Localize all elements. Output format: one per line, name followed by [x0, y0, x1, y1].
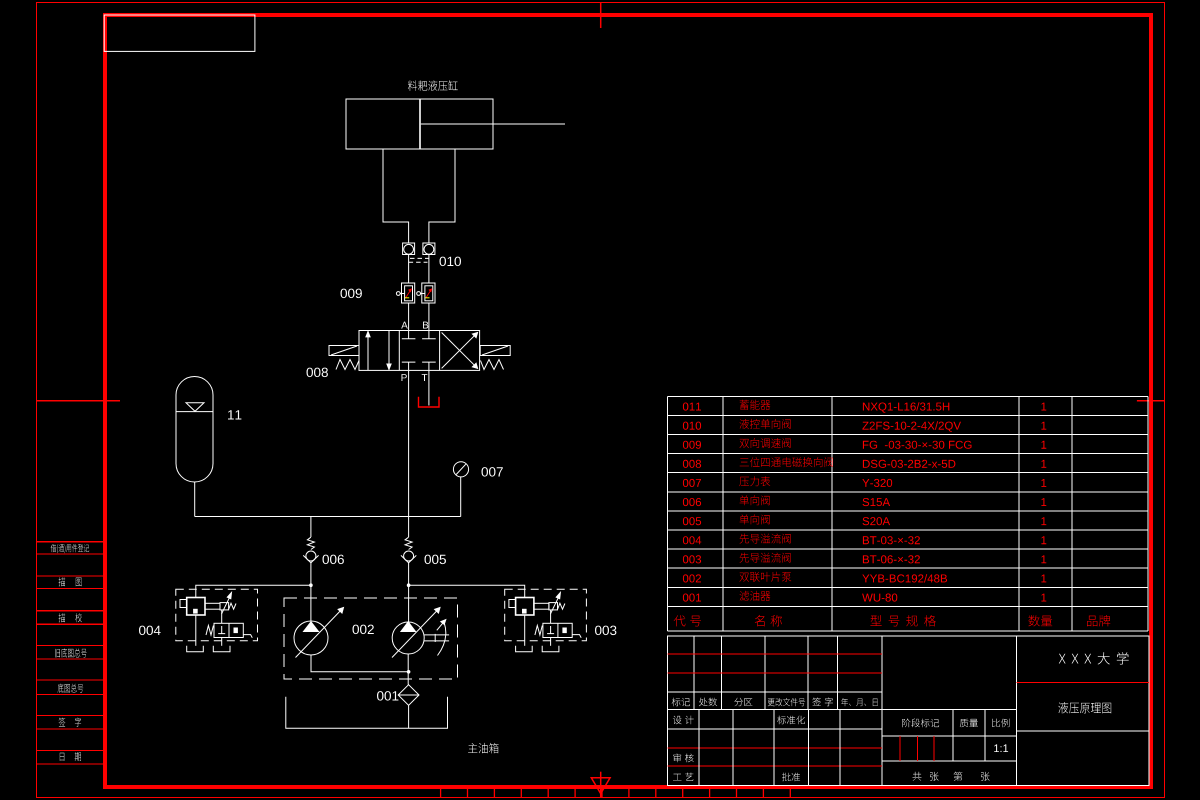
BOM row 005 qty: [1041, 517, 1046, 525]
BOM row 010 model: [862, 421, 961, 432]
BOM table lines: [667, 396, 1148, 631]
tb 张1: [930, 772, 939, 781]
BOM row 011 code: [683, 403, 701, 411]
solenoid left of 008: [329, 346, 359, 356]
BOM row 004 model: [863, 536, 920, 544]
pump right: [392, 608, 440, 658]
filter 001: [398, 685, 419, 706]
port label A: [401, 322, 408, 329]
BOM row 006 code: [683, 498, 701, 506]
valve 008 centre blocked ports: [402, 331, 436, 371]
spring left of 008: [336, 360, 359, 370]
node pump junction: [407, 670, 411, 674]
BOM row 007 name: [739, 476, 770, 486]
main oil tank outline: [286, 697, 448, 729]
ls 期: [75, 752, 81, 761]
BOM row 006 qty: [1041, 498, 1046, 506]
BOM header 型: [870, 615, 881, 626]
label 009: [341, 289, 362, 299]
check valve 005: [401, 517, 416, 586]
tb XXX大学: [1059, 652, 1129, 664]
pump unit dashed box 002: [284, 598, 458, 679]
ls 日: [60, 753, 65, 761]
wire to relief 003: [409, 585, 525, 597]
tb 签字: [812, 698, 833, 707]
valve 008 left position arrows: [366, 331, 391, 370]
BOM row 001 qty: [1041, 594, 1046, 602]
spring right of 008: [481, 360, 504, 370]
BOM row 003 name: [740, 553, 791, 563]
tank symbol red at T: [419, 397, 440, 407]
port label B: [423, 322, 428, 329]
directional valve 008 body: [359, 331, 480, 371]
label 010: [440, 257, 462, 267]
BOM header 规: [906, 615, 917, 626]
BOM row 003 code: [683, 555, 701, 563]
bottom ruler ticks: [441, 789, 791, 798]
top-left blank title box: [104, 15, 255, 51]
left strip cell lines: [37, 542, 103, 764]
solenoid right of 008: [480, 346, 510, 356]
ls 旧底图总号: [55, 648, 87, 657]
pressure gauge 007: [453, 462, 468, 517]
pilot crossover dashed lines 010: [409, 258, 429, 262]
label 004: [139, 626, 161, 636]
center mark bottom with triangle: [591, 772, 610, 798]
BOM row 006 model: [863, 498, 891, 506]
ls 图: [76, 578, 82, 587]
port label T: [422, 374, 428, 381]
label 003: [595, 626, 616, 636]
BOM row 002 model: [862, 574, 947, 582]
tb 批准: [782, 773, 800, 782]
wire to relief 004: [196, 585, 311, 597]
center mark left: [37, 400, 120, 402]
wire filter to tank: [408, 705, 410, 728]
BOM row 001 model: [862, 594, 897, 602]
BOM row 007 qty: [1041, 479, 1046, 487]
BOM row 008 code: [683, 460, 701, 468]
BOM row 011 model: [863, 402, 949, 413]
center mark right: [1137, 400, 1164, 402]
tb 标准化: [777, 716, 805, 725]
wire 010 right to 009: [428, 255, 430, 284]
tb 工艺: [673, 773, 693, 781]
wire junction to pump right: [408, 585, 410, 622]
BOM row 007 code: [683, 479, 701, 487]
label 002: [353, 625, 374, 635]
BOM header 代号: [674, 615, 701, 626]
tb 年月日: [841, 698, 877, 706]
BOM row 007 model: [862, 479, 892, 487]
valve 008 right position cross arrows: [442, 333, 478, 369]
BOM row 009 name: [740, 438, 791, 448]
BOM row 004 qty: [1041, 536, 1046, 544]
label 005: [425, 555, 447, 565]
tb 比例: [992, 719, 1009, 728]
BOM row 003 qty: [1041, 555, 1046, 563]
BOM row 008 model: [863, 460, 956, 468]
BOM row 009 code: [683, 441, 701, 449]
ls 描2: [59, 613, 66, 622]
tb 审核: [673, 754, 693, 763]
BOM header 格: [924, 615, 936, 627]
wire cylinder right port: [429, 149, 455, 243]
BOM row 009 qty: [1041, 441, 1046, 449]
tb 第: [954, 772, 963, 781]
accumulator 11: [176, 377, 213, 482]
BOM row 009 model: [863, 441, 972, 449]
BOM row 003 model: [863, 555, 920, 563]
tb 标记: [672, 698, 690, 707]
node junction right: [407, 583, 411, 587]
BOM row 001 code: [683, 594, 701, 602]
BOM row 008 name: [740, 457, 833, 467]
BOM row 010 code: [683, 422, 701, 430]
label 料耙液压缸: [408, 80, 458, 91]
label 001: [377, 691, 398, 701]
wire 009 right to valve B: [428, 303, 430, 331]
BOM row 002 name: [740, 572, 792, 582]
wire pump bottoms: [311, 655, 409, 672]
BOM row 010 qty: [1041, 422, 1046, 430]
label 008: [307, 368, 328, 378]
pump left: [294, 608, 344, 658]
wire cylinder left port: [383, 149, 409, 243]
ls 签: [59, 718, 66, 727]
wire 009 left to valve A: [408, 303, 410, 331]
tb 分区: [734, 698, 752, 706]
ls 校: [75, 613, 82, 622]
BOM row 006 name: [740, 495, 770, 505]
BOM row 005 name: [740, 514, 770, 524]
BOM header 名称: [755, 615, 782, 627]
pilot relief valve 003: [505, 589, 587, 652]
BOM row 004 code: [683, 536, 701, 544]
ls 底图总号: [58, 684, 84, 693]
tb 液压原理图: [1058, 702, 1111, 713]
BOM row 011 qty: [1041, 403, 1046, 411]
wire T line valve to tank: [428, 370, 430, 405]
pilot check valve 010 right: [423, 243, 435, 255]
tb 阶段标记: [902, 719, 939, 728]
BOM row 004 name: [740, 534, 791, 544]
BOM row 002 qty: [1041, 575, 1046, 583]
ls 字: [75, 718, 81, 727]
tb 质量: [960, 719, 978, 728]
label 007: [482, 467, 503, 477]
BOM header 号: [889, 616, 900, 627]
ls 借通用件登记: [51, 544, 89, 553]
tb 设计: [673, 716, 694, 725]
tb 处数: [699, 698, 717, 707]
BOM row 008 qty: [1041, 460, 1046, 468]
title block lines: [668, 636, 1149, 785]
wire 010 left to 009: [408, 255, 410, 284]
label 11: [228, 410, 241, 419]
throttle valve 009 right: [417, 283, 435, 303]
BOM row 005 code: [683, 517, 701, 525]
BOM row 011 name: [740, 400, 771, 410]
node junction left: [309, 583, 313, 587]
scale 1:1: [994, 744, 1008, 752]
tb 张2: [981, 772, 990, 781]
BOM header 品牌: [1087, 615, 1110, 626]
wire accumulator stem: [194, 482, 196, 517]
BOM row 005 model: [863, 517, 891, 525]
center mark top: [600, 2, 602, 28]
BOM row 002 code: [683, 574, 701, 582]
BOM row 001 name: [740, 591, 771, 601]
hydraulic cylinder 料耙液压缸: [346, 99, 565, 149]
label 主油箱: [468, 743, 499, 754]
port label P: [402, 374, 407, 381]
wire manifold line: [195, 516, 461, 518]
check valve 006: [303, 517, 318, 586]
pilot check valve 010 left: [403, 243, 415, 255]
pilot relief valve 004: [176, 589, 258, 652]
BOM row 010 name: [740, 419, 791, 429]
label 006: [323, 555, 344, 565]
wire P line valve to manifold: [408, 370, 410, 516]
pump shaft symbol: [424, 620, 449, 656]
throttle valve 009 left: [396, 283, 414, 303]
tb 更改文件号: [768, 698, 805, 706]
tb 共: [913, 772, 922, 781]
wire junction to pump left: [310, 585, 312, 621]
ls 描: [59, 577, 66, 586]
BOM header 数量: [1028, 615, 1052, 626]
